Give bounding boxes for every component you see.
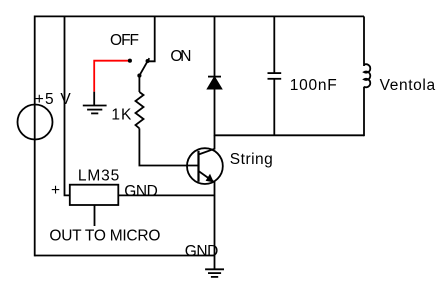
wire LM35 plus supply branch — [65, 16, 70, 195]
svg-text:LM35: LM35 — [78, 167, 119, 184]
wire LM35 GND to emitter node — [118, 194, 214, 196]
diode D1 cathode bar — [208, 76, 221, 78]
LM35 sensor body — [70, 185, 119, 205]
wire diode anode down to mid rail — [214, 89, 216, 137]
wire emitter down to ground — [214, 182, 216, 269]
inductor L1 Ventola coil — [364, 64, 370, 87]
switch SW1 ON contact dot — [146, 59, 150, 63]
ground symbol at OFF contact — [83, 106, 107, 114]
capacitor C1 bottom plate — [268, 78, 282, 80]
transistor Q1 circle — [187, 148, 223, 184]
wire mid rail (collector node) — [215, 134, 365, 136]
wire LM35 output stub — [94, 205, 96, 226]
resistor R1 1K zigzag — [136, 92, 144, 128]
svg-text:GND: GND — [185, 243, 219, 260]
wire left branch (through +5V source) — [34, 16, 36, 257]
capacitor C1 top plate — [268, 72, 282, 74]
transistor Q1 base bar — [197, 151, 199, 182]
svg-text:ON: ON — [170, 48, 191, 65]
wire top rail — [35, 15, 364, 17]
svg-text:Ventola: Ventola — [380, 77, 436, 94]
wire collector up to mid rail — [214, 135, 216, 149]
wire switch OFF red wire — [94, 61, 130, 92]
wire capacitor bottom to mid rail — [273, 79, 275, 136]
wire bottom-left rail — [35, 255, 215, 257]
wire stem to OFF ground — [93, 92, 95, 106]
wire resistor to transistor base — [139, 128, 198, 165]
switch SW1 arm — [139, 58, 149, 75]
transistor Q1 emitter diagonal — [199, 171, 214, 182]
svg-text:GND: GND — [124, 183, 158, 200]
wire fan branch from top rail — [363, 16, 365, 66]
svg-text:100nF: 100nF — [290, 77, 337, 94]
wire capacitor branch from top rail — [273, 16, 275, 73]
wire switch feed from top rail — [148, 16, 155, 61]
switch SW1 OFF contact dot — [128, 59, 132, 63]
voltage source V1 +5V — [18, 105, 53, 140]
svg-text:1K: 1K — [111, 107, 132, 124]
wire fan bottom to mid rail — [363, 87, 365, 137]
wire diode branch from top rail — [214, 16, 216, 77]
svg-text:OUT TO MICRO: OUT TO MICRO — [49, 228, 160, 245]
transistor Q1 collector diagonal — [199, 149, 215, 155]
svg-text:OFF: OFF — [110, 32, 139, 49]
wire switch common down to resistor — [138, 76, 140, 92]
transistor Q1 emitter arrow — [206, 174, 214, 183]
svg-text:+5 V: +5 V — [35, 91, 72, 108]
ground symbol bottom — [205, 269, 224, 277]
switch SW1 common pole dot — [137, 74, 141, 78]
svg-text:+: + — [51, 182, 60, 199]
diode D1 triangle — [208, 78, 221, 89]
svg-text:String: String — [230, 151, 273, 168]
